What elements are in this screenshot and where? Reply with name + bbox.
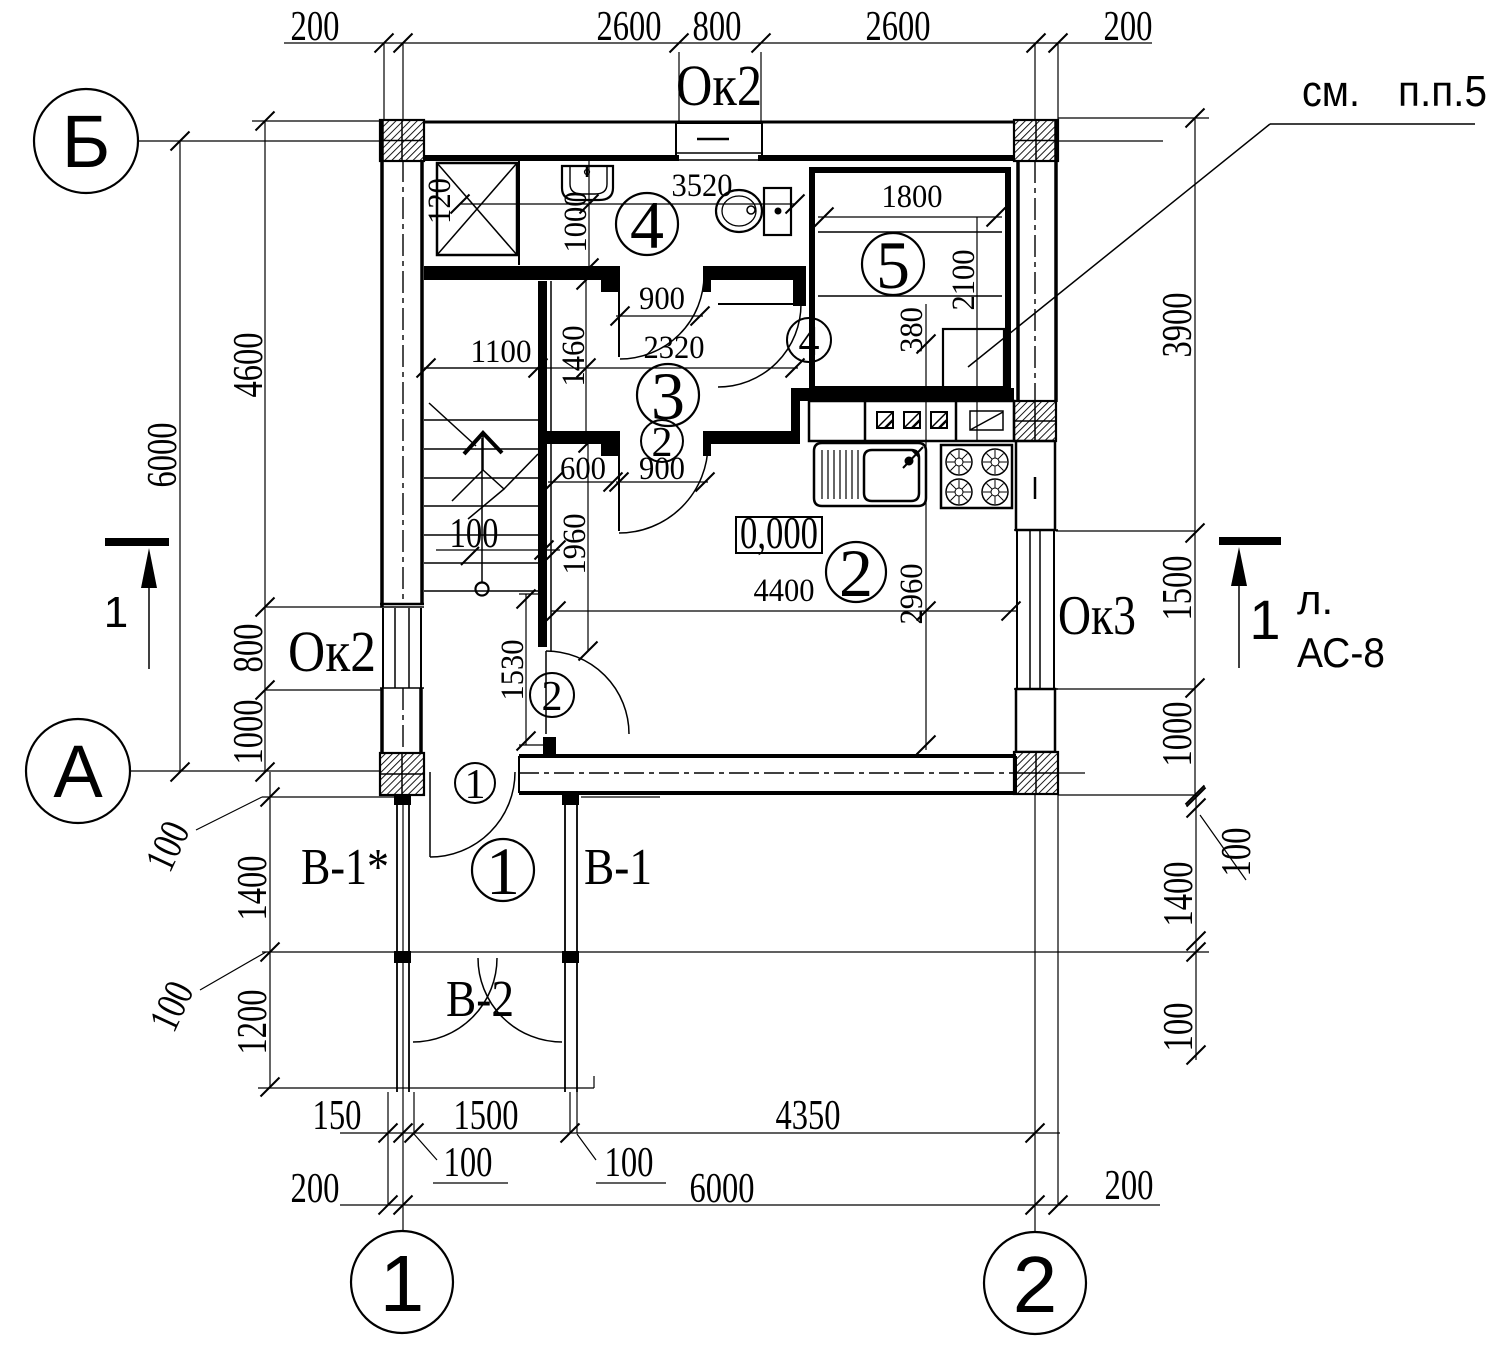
interior wall hall south, left part bbox=[547, 431, 613, 444]
svg-text:см.: см. bbox=[1302, 67, 1360, 116]
svg-text:4600: 4600 bbox=[226, 333, 272, 398]
room number circle 5 bbox=[862, 233, 924, 295]
svg-text:0,000: 0,000 bbox=[740, 507, 818, 558]
svg-text:п.п.5: п.п.5 bbox=[1398, 67, 1487, 116]
room 2 dim 2960 bbox=[925, 440, 927, 750]
svg-text:100: 100 bbox=[605, 1140, 654, 1186]
svg-text:380: 380 bbox=[894, 307, 930, 353]
right extension mid bbox=[1056, 530, 1195, 532]
shaft box with cross bbox=[437, 163, 517, 255]
room 4 dim 1000 bbox=[588, 161, 590, 276]
interior wall room4 south, left part bbox=[424, 266, 613, 280]
svg-text:2600: 2600 bbox=[597, 4, 662, 50]
room 5 dim 2100 bbox=[976, 217, 978, 440]
svg-text:В-1*: В-1* bbox=[301, 839, 389, 896]
kitchen vent box bbox=[970, 411, 1003, 430]
interior wall hall south, right part bbox=[703, 431, 795, 444]
svg-text:200: 200 bbox=[291, 1166, 340, 1212]
axis bubble 1 (column 1) bbox=[351, 1231, 453, 1333]
left extension lines bbox=[252, 120, 383, 122]
svg-text:5: 5 bbox=[876, 227, 910, 303]
svg-text:3520: 3520 bbox=[672, 168, 733, 204]
left wall outer edge bbox=[380, 120, 384, 607]
bottom wall jamb stub at hall door bbox=[543, 737, 556, 757]
axis bubble Б (row B) bbox=[34, 89, 138, 193]
lower-left extensions bbox=[262, 796, 397, 798]
svg-text:1000: 1000 bbox=[558, 192, 594, 253]
stair wall V1 bbox=[538, 281, 547, 647]
svg-text:л.: л. bbox=[1297, 576, 1333, 623]
right leader 100 bbox=[1200, 815, 1246, 880]
svg-text:2: 2 bbox=[839, 535, 873, 611]
stair direction arrow bbox=[429, 403, 476, 446]
svg-text:600: 600 bbox=[560, 451, 606, 487]
svg-text:2: 2 bbox=[1013, 1240, 1058, 1329]
room 5 corner box bbox=[943, 329, 1004, 388]
hall dim 2320 bbox=[424, 367, 798, 369]
stove burner 4 bbox=[982, 479, 1008, 505]
hall entrance circle 2 small bbox=[530, 673, 574, 717]
kitchen sink basin bbox=[864, 450, 919, 501]
axis line 1 vertical bbox=[402, 43, 404, 122]
top wall inner edge right segment bbox=[758, 155, 1018, 161]
room 2 dim 4400 bbox=[551, 610, 1016, 612]
left wall bottom cap bbox=[380, 603, 424, 606]
window Ок3 (frame lines) bbox=[1016, 530, 1018, 689]
svg-text:Ок3: Ок3 bbox=[1058, 585, 1136, 647]
svg-text:1460: 1460 bbox=[556, 326, 592, 387]
kitchen faucet bbox=[903, 447, 923, 468]
room 5 walls bbox=[812, 170, 1008, 389]
stair dim 100 bbox=[436, 549, 560, 551]
door В-1* leaf and swing bbox=[429, 772, 431, 857]
left dim line 6000 bbox=[179, 141, 181, 772]
svg-text:Б: Б bbox=[62, 100, 111, 183]
room 5 dim 1800 bbox=[818, 216, 1002, 218]
room 5 dim 380 bbox=[925, 304, 927, 440]
kitchen switch square 2 bbox=[904, 412, 920, 428]
interior wall corridor stub V2 bbox=[793, 266, 806, 306]
top dimension line bbox=[284, 42, 1152, 44]
hall dim 900 upper bbox=[616, 315, 703, 317]
svg-text:1960: 1960 bbox=[557, 514, 593, 575]
pilaster hatch bottom-left bbox=[380, 753, 424, 795]
svg-text:2100: 2100 bbox=[946, 250, 982, 311]
top wall outer edge bbox=[380, 121, 1058, 124]
svg-text:2600: 2600 bbox=[866, 4, 931, 50]
svg-text:200: 200 bbox=[291, 4, 340, 50]
room number circle 1 bbox=[472, 839, 534, 901]
right lower dim line 1400/100 bbox=[1195, 795, 1197, 1060]
note leader line bbox=[1270, 123, 1475, 125]
axis bubble А (row A) bbox=[26, 719, 130, 823]
door 900 to room 4 (leaf+swing) bbox=[618, 290, 620, 357]
svg-text:1800: 1800 bbox=[882, 179, 943, 215]
hall dim 1530 bbox=[519, 593, 545, 595]
kitchen switch square 3 bbox=[931, 412, 947, 428]
door 900 to room 2 (leaf+swing) bbox=[618, 456, 620, 531]
porch right wall bbox=[564, 795, 566, 1092]
bottom dim line 200/6000/200 bbox=[340, 1204, 1160, 1206]
svg-text:1100: 1100 bbox=[471, 334, 532, 370]
svg-text:100: 100 bbox=[1214, 828, 1260, 877]
interior wall kitchen connector bbox=[791, 398, 800, 444]
leader 100 bottom-left bbox=[414, 1134, 437, 1160]
room 5 shelf lines bbox=[818, 231, 1002, 233]
svg-text:В-1: В-1 bbox=[584, 839, 652, 896]
stair treads bbox=[424, 419, 538, 421]
long extension line y952 bbox=[262, 951, 1209, 953]
hall dim 1100 bbox=[426, 367, 538, 369]
svg-text:4400: 4400 bbox=[754, 573, 815, 609]
right wall inner edge upper bbox=[1016, 161, 1020, 402]
left wall below window bbox=[380, 688, 384, 753]
section mark right bbox=[1219, 537, 1281, 545]
svg-text:АС-8: АС-8 bbox=[1297, 629, 1385, 676]
hall dim 1460 bbox=[585, 280, 587, 431]
right wall chunk above window bbox=[1016, 441, 1055, 530]
svg-text:4: 4 bbox=[630, 187, 664, 263]
interior wall kitchen north bbox=[791, 388, 1014, 401]
svg-text:1400: 1400 bbox=[230, 856, 276, 921]
section mark left bbox=[105, 538, 169, 546]
svg-text:800: 800 bbox=[693, 4, 742, 50]
svg-text:900: 900 bbox=[639, 281, 685, 317]
left dim line inner bbox=[264, 121, 266, 772]
window Ок2 top (frame lines) bbox=[676, 122, 762, 124]
svg-text:1: 1 bbox=[1249, 588, 1280, 651]
room number circle 2 bbox=[826, 542, 886, 602]
svg-text:800: 800 bbox=[226, 624, 272, 673]
top wall inner edge left segment bbox=[422, 155, 679, 161]
stove burner 1 bbox=[946, 449, 972, 475]
pilaster hatch right-middle bbox=[1014, 401, 1056, 441]
pilaster hatch top-right bbox=[1014, 120, 1058, 161]
svg-text:150: 150 bbox=[313, 1093, 362, 1139]
right wall outer edge upper bbox=[1054, 120, 1058, 402]
axis bubble 2 (column 2) bbox=[984, 1232, 1086, 1334]
svg-text:Ок2: Ок2 bbox=[288, 619, 376, 684]
bottom dim line 150/1500/4350 bbox=[340, 1132, 1060, 1134]
kitchen sink unit bbox=[814, 443, 926, 506]
door В-2 double swing bbox=[413, 958, 497, 1042]
bottom wall band bbox=[519, 754, 1016, 758]
leader 100 bottom-right bbox=[577, 1134, 596, 1160]
svg-text:1200: 1200 bbox=[230, 990, 276, 1055]
svg-text:6000: 6000 bbox=[690, 1166, 755, 1212]
kitchen sink drainboard bbox=[821, 450, 823, 499]
room 4 dim 3520 bbox=[460, 203, 795, 205]
svg-text:3900: 3900 bbox=[1155, 293, 1201, 358]
room number circle 4 bbox=[616, 193, 678, 255]
svg-text:1: 1 bbox=[104, 588, 128, 637]
kitchen counter outline bbox=[809, 401, 1014, 441]
stair center line with base circle bbox=[481, 438, 483, 583]
svg-text:2960: 2960 bbox=[894, 564, 930, 625]
level mark 0,000 bbox=[736, 517, 822, 553]
svg-text:120: 120 bbox=[422, 178, 458, 224]
stove burner 2 bbox=[982, 449, 1008, 475]
top dim extension lines bbox=[383, 43, 385, 122]
svg-text:4: 4 bbox=[799, 319, 820, 365]
door 800 to kitchen zone (leaf+swing) bbox=[718, 303, 801, 305]
axis line Б bbox=[138, 140, 383, 142]
toilet bowl bbox=[716, 190, 762, 232]
room number circle 3 bbox=[637, 364, 699, 426]
right wall chunk below window bbox=[1016, 689, 1055, 752]
left wall inner edge bbox=[420, 161, 424, 604]
pilaster hatch top-left bbox=[380, 120, 424, 161]
bottom extension verticals bbox=[387, 1092, 389, 1205]
svg-text:1530: 1530 bbox=[495, 640, 531, 701]
svg-text:200: 200 bbox=[1105, 1163, 1154, 1209]
toilet cistern bbox=[764, 188, 791, 235]
svg-text:200: 200 bbox=[1104, 4, 1153, 50]
axis line А bbox=[130, 770, 424, 772]
hall dim 600 bbox=[548, 481, 613, 483]
svg-text:1500: 1500 bbox=[454, 1093, 519, 1139]
kitchen switch square 1 bbox=[877, 412, 893, 428]
interior wall room4 south, right part bbox=[703, 266, 797, 280]
svg-text:1000: 1000 bbox=[1155, 702, 1201, 767]
svg-text:2: 2 bbox=[542, 674, 563, 720]
svg-text:100: 100 bbox=[1156, 1003, 1202, 1052]
svg-text:1500: 1500 bbox=[1155, 556, 1201, 621]
svg-text:900: 900 bbox=[639, 451, 685, 487]
axis line 2 vertical bbox=[1034, 43, 1036, 122]
svg-text:В-2: В-2 bbox=[446, 971, 514, 1028]
right dim line 3900/1500/1000 bbox=[1194, 118, 1196, 795]
svg-text:1: 1 bbox=[465, 762, 486, 808]
stove burner 3 bbox=[946, 479, 972, 505]
porch bottom extension bbox=[258, 1087, 594, 1089]
svg-text:6000: 6000 bbox=[140, 423, 186, 488]
right extension top bbox=[1058, 117, 1209, 119]
svg-text:А: А bbox=[53, 730, 103, 813]
svg-text:Ок2: Ок2 bbox=[676, 53, 762, 118]
pilaster hatch bottom-right bbox=[1014, 752, 1058, 794]
door number circle 2 small bbox=[641, 420, 683, 462]
top dim ticks bbox=[375, 34, 394, 53]
hall dim 1960 bbox=[587, 443, 589, 651]
entrance circle 1 small bbox=[455, 763, 495, 803]
svg-text:1400: 1400 bbox=[1156, 862, 1202, 927]
door number circle 4 small bbox=[787, 318, 831, 362]
hall dim 900 lower bbox=[616, 481, 708, 483]
washbasin room 4 bbox=[562, 166, 613, 200]
kitchen stove bbox=[941, 445, 1012, 508]
hall entrance door (leaf+swing) bbox=[545, 651, 547, 734]
lower-left dim line 1400/1200 bbox=[269, 772, 271, 1088]
svg-text:4350: 4350 bbox=[776, 1093, 841, 1139]
porch left wall bbox=[396, 795, 398, 1092]
svg-text:1: 1 bbox=[486, 833, 520, 909]
svg-text:1000: 1000 bbox=[226, 700, 272, 765]
svg-text:1: 1 bbox=[380, 1239, 425, 1328]
svg-text:100: 100 bbox=[450, 511, 499, 557]
window Ок2 left (frame lines) bbox=[382, 608, 384, 688]
svg-text:100: 100 bbox=[444, 1140, 493, 1186]
